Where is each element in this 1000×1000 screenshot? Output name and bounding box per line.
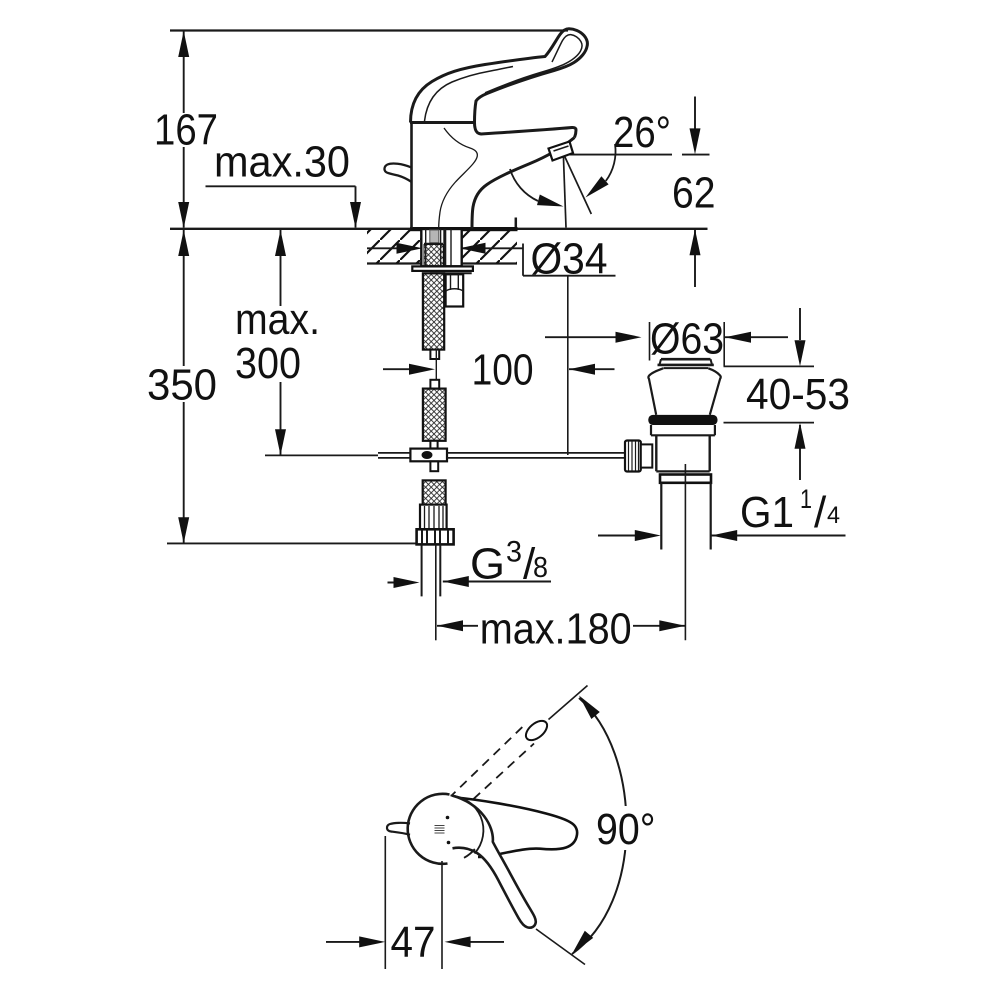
svg-text:3: 3	[506, 536, 522, 569]
svg-text:47: 47	[391, 918, 436, 967]
svg-text:4: 4	[827, 502, 840, 529]
svg-text:26°: 26°	[613, 108, 671, 157]
svg-text:max.: max.	[235, 295, 320, 344]
svg-text:Ø63: Ø63	[650, 315, 724, 364]
svg-text:1: 1	[800, 484, 812, 514]
svg-text:max.30: max.30	[214, 138, 350, 187]
svg-text:G1: G1	[740, 488, 794, 537]
svg-text:100: 100	[472, 346, 534, 395]
svg-text:300: 300	[235, 339, 301, 388]
svg-text:Ø34: Ø34	[531, 235, 608, 284]
svg-text:G: G	[470, 540, 505, 589]
svg-text:167: 167	[154, 106, 218, 155]
svg-text:8: 8	[533, 552, 548, 584]
svg-text:90°: 90°	[596, 805, 656, 854]
svg-text:350: 350	[147, 361, 217, 410]
svg-text:max.180: max.180	[480, 605, 632, 654]
svg-text:/: /	[814, 488, 827, 537]
svg-text:62: 62	[672, 169, 716, 218]
svg-text:40-53: 40-53	[746, 370, 850, 419]
